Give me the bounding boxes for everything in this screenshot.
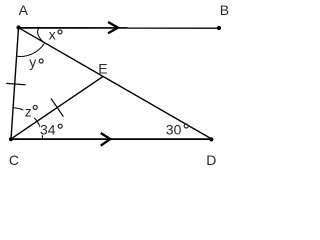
angle arc z and 34 at C (13, 108, 42, 139)
line CE (11, 77, 103, 139)
svg-text:z: z (25, 103, 32, 119)
arrow on AB (108, 22, 118, 33)
svg-text:30: 30 (166, 121, 182, 137)
mask under 34 label (40, 122, 60, 135)
svg-text:A: A (19, 2, 29, 18)
svg-text:x: x (49, 27, 56, 43)
degree sign of y (39, 59, 43, 63)
point C (9, 137, 13, 141)
svg-text:D: D (206, 152, 216, 168)
mask under z label (23, 104, 36, 118)
point D (209, 137, 213, 141)
point B (217, 26, 221, 30)
angle arc y at A (17, 44, 45, 57)
svg-text:E: E (98, 61, 107, 77)
degree sign of 30 (184, 124, 188, 128)
tick on AC (6, 83, 25, 84)
line AB (19, 27, 220, 29)
degree sign of x (58, 30, 62, 34)
degree sign of z (33, 105, 37, 109)
line CD (11, 138, 212, 140)
line AD through E (19, 28, 212, 139)
tick on CE (51, 98, 63, 116)
angle arc x at A (38, 28, 43, 42)
point A (16, 25, 20, 29)
svg-text:C: C (9, 152, 19, 168)
svg-text:y: y (29, 54, 36, 70)
degree sign of 34 (58, 124, 62, 128)
svg-text:B: B (220, 2, 229, 18)
line AC (11, 28, 19, 139)
arrow on CD (101, 133, 111, 146)
svg-text:34: 34 (40, 121, 56, 137)
